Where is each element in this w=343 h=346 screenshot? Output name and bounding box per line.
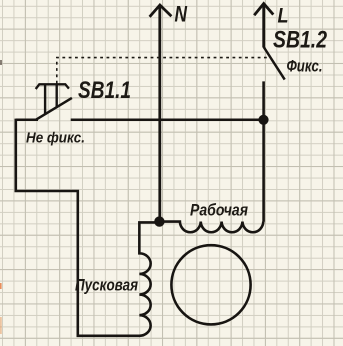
junction dot N line / windings node [154, 216, 164, 226]
start winding Пусковая (4 bumps bulging right) [139, 222, 159, 335]
wire: L line from lever down through junction to run winding [262, 81, 265, 221]
run winding Рабочая (4 bumps below wire) [159, 222, 263, 233]
switch SB1.2 lever (fixed push switch, open) [264, 47, 285, 80]
net L vertical wire with arrow (upper terminal of SB1.2) [254, 4, 273, 48]
junction dot on L line [258, 115, 268, 125]
svg-text:SB1.2: SB1.2 [273, 27, 328, 54]
svg-text:Фикс.: Фикс. [287, 57, 323, 76]
paper artifact smudge left edge [0, 60, 2, 334]
switch SB1.1 lever (momentary, open) [36, 98, 72, 120]
motor rotor circle [171, 245, 250, 324]
svg-text:Рабочая: Рабочая [190, 200, 248, 219]
push-button actuator of SB1.1 (cap with two stems) [36, 84, 69, 114]
wire: SB1.1 right terminal across to L line junction [71, 119, 264, 122]
svg-text:SB1.1: SB1.1 [78, 77, 131, 104]
wire: left rail staircase down to start winding [16, 119, 140, 336]
wire: left terminal into SB1.1 [16, 119, 38, 122]
net N vertical wire with arrow [150, 5, 172, 222]
svg-text:N: N [175, 1, 188, 26]
svg-text:Не фикс.: Не фикс. [26, 129, 85, 146]
dashed mechanical-link line from SB1.1 button to SB1.2 [57, 58, 268, 84]
svg-text:L: L [278, 4, 289, 27]
svg-text:Пусковая: Пусковая [75, 277, 138, 295]
